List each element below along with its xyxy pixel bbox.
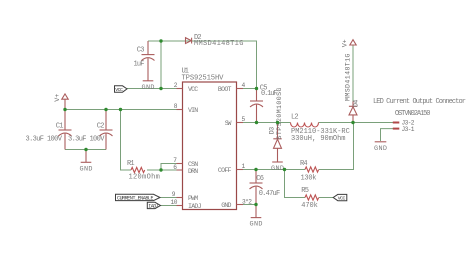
- node CSN DRN R1: [159, 168, 162, 171]
- pin stub CSN: [177, 163, 183, 165]
- svg-text:3.3uF 100V: 3.3uF 100V: [26, 136, 63, 144]
- svg-text:IADJ: IADJ: [188, 203, 202, 210]
- wire C1 C2 bottom rail: [65, 149, 106, 151]
- capacitor C3: [134, 41, 155, 81]
- svg-text:C3: C3: [137, 47, 145, 55]
- node GND pin C6: [254, 203, 257, 206]
- wire R5 to VCC flag: [319, 197, 333, 199]
- supply V+ left: [54, 94, 68, 110]
- svg-text:470k: 470k: [301, 202, 318, 210]
- capacitor C1: [26, 110, 72, 150]
- svg-text:0.1uF: 0.1uF: [261, 90, 278, 98]
- ground below C1 C2: [80, 150, 93, 174]
- resistor R1: [127, 160, 160, 182]
- svg-text:C2: C2: [97, 122, 105, 130]
- wire GND pin 3*2: [237, 204, 257, 206]
- svg-text:VCC: VCC: [115, 87, 123, 93]
- svg-text:R5: R5: [301, 187, 309, 195]
- node V+ VIN: [63, 108, 66, 111]
- node VCC pin 2: [159, 87, 162, 90]
- wire SW rail to L2: [237, 122, 291, 124]
- wire top rail D2 anode/cathode to BOOT drop: [148, 41, 257, 89]
- wire D4 vertical to V+: [352, 45, 354, 102]
- pin stub PWM: [177, 197, 183, 199]
- svg-text:V+: V+: [342, 39, 350, 47]
- svg-text:R4: R4: [300, 160, 308, 168]
- svg-text:VCC: VCC: [338, 196, 346, 202]
- supply flag VCC right: [333, 194, 347, 201]
- pin stub BOOT: [237, 88, 244, 90]
- capacitor C2: [68, 110, 113, 150]
- ground below C6: [250, 205, 263, 229]
- pin stub IADJ: [177, 205, 183, 207]
- svg-text:330uH, 90mOhm: 330uH, 90mOhm: [291, 135, 346, 143]
- wire COFF pin 1 rail: [237, 169, 306, 171]
- pin stub SW: [237, 122, 244, 124]
- svg-text:130k: 130k: [301, 174, 317, 182]
- svg-text:OSTVN02A150: OSTVN02A150: [395, 110, 431, 118]
- svg-text:MMSD4148T1G: MMSD4148T1G: [345, 53, 352, 101]
- svg-text:9: 9: [172, 191, 176, 198]
- pin stub DRN: [177, 169, 183, 171]
- svg-text:3.3uF 100V: 3.3uF 100V: [68, 136, 105, 144]
- svg-text:CURRENT_ENABLE: CURRENT_ENABLE: [117, 196, 154, 202]
- svg-text:D3: D3: [269, 127, 276, 134]
- net label CURRENT_ENABLE: [116, 194, 161, 201]
- svg-text:BOOT: BOOT: [218, 86, 232, 93]
- svg-text:GND: GND: [250, 221, 263, 229]
- svg-text:C1: C1: [56, 122, 64, 130]
- svg-text:3*2: 3*2: [242, 198, 252, 205]
- svg-text:1uF: 1uF: [134, 61, 145, 69]
- node C2 VIN: [104, 108, 107, 111]
- svg-text:VIN: VIN: [188, 107, 198, 114]
- svg-text:GND: GND: [80, 165, 93, 173]
- svg-text:IADJ: IADJ: [148, 204, 159, 210]
- capacitor C6: [250, 170, 281, 205]
- connector pin J3-1: [393, 126, 415, 133]
- ground below D3: [271, 162, 284, 173]
- node COFF R4 R5: [283, 168, 286, 171]
- svg-text:DRN: DRN: [188, 168, 198, 175]
- resistor R5: [301, 187, 318, 210]
- pin stub GND: [237, 204, 244, 206]
- svg-text:D4: D4: [353, 100, 360, 107]
- node BOOT C5: [255, 87, 258, 90]
- wire R5 branch from COFF node: [285, 170, 306, 198]
- svg-text:GND: GND: [271, 165, 284, 173]
- svg-text:STPS20M100SG: STPS20M100SG: [276, 87, 283, 139]
- svg-text:J3-1: J3-1: [402, 126, 415, 133]
- supply flag VCC left: [115, 86, 128, 93]
- svg-text:V+: V+: [54, 94, 62, 102]
- wire R1 to DRN pin 6: [147, 169, 183, 171]
- svg-text:0.47uF: 0.47uF: [259, 190, 281, 198]
- node ground rail: [84, 148, 87, 151]
- wire VCC vertical drop: [160, 41, 162, 89]
- svg-text:COFF: COFF: [218, 167, 232, 174]
- svg-text:VCC: VCC: [188, 86, 198, 93]
- wire PWM pin 9: [161, 197, 183, 199]
- connector pin J3-2: [393, 120, 415, 127]
- svg-text:TPS92515HV: TPS92515HV: [182, 75, 225, 83]
- pin stub COFF: [237, 169, 244, 171]
- svg-text:SW: SW: [225, 120, 232, 127]
- capacitor C5: [250, 84, 278, 122]
- node SW C5: [255, 121, 258, 124]
- wire VIN rail: [65, 109, 183, 111]
- ground below C3: [142, 81, 155, 92]
- svg-text:120mOhm: 120mOhm: [129, 174, 160, 182]
- pin stub VCC: [177, 88, 183, 90]
- net label IADJ: [147, 202, 160, 209]
- svg-text:C6: C6: [256, 175, 264, 183]
- node SW D3: [276, 121, 279, 124]
- svg-text:PWM: PWM: [188, 195, 198, 202]
- svg-text:R1: R1: [127, 160, 135, 168]
- svg-text:LED Current Output Connector: LED Current Output Connector: [373, 98, 466, 106]
- pin stub VIN: [177, 109, 183, 111]
- wire R1 branch from VIN: [121, 110, 132, 171]
- diode D4: [345, 53, 360, 122]
- IC U1 TPS92515HV body: [182, 67, 237, 209]
- svg-text:MMSD4148T1G: MMSD4148T1G: [194, 40, 243, 48]
- svg-text:GND: GND: [142, 84, 155, 92]
- wire IADJ pin 10: [161, 205, 183, 207]
- ground at J3-1: [374, 142, 387, 153]
- diode D3: [269, 87, 284, 162]
- wire L2 to output J3-2: [319, 122, 394, 124]
- wire BOOT pin 4: [237, 88, 257, 90]
- svg-text:L2: L2: [291, 113, 299, 121]
- node R1 VIN: [119, 108, 122, 111]
- wire J3-1 to ground: [381, 129, 394, 141]
- resistor R4: [300, 160, 319, 182]
- supply V+ right: [342, 39, 357, 47]
- svg-text:GND: GND: [374, 145, 387, 153]
- inductor L2: [291, 113, 350, 143]
- node COFF C6: [254, 168, 257, 171]
- diode D2: [186, 34, 244, 48]
- node SW D4 R4: [351, 121, 354, 124]
- svg-text:GND: GND: [221, 202, 231, 209]
- wire R4 to SW node riser: [319, 123, 354, 170]
- wire CSN pin 7 step: [161, 164, 183, 171]
- node top rail / VCC drop: [159, 39, 162, 42]
- wire VCC flag to pin 2: [127, 88, 183, 90]
